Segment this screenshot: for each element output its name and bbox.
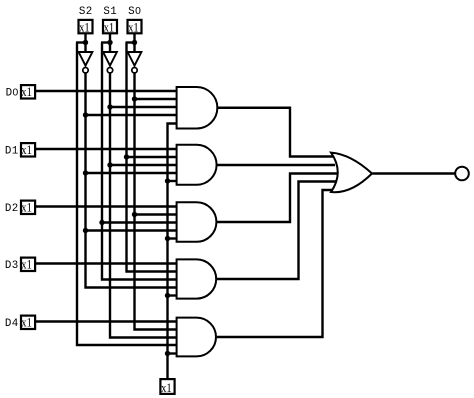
svg-text:S2: S2 (79, 6, 93, 18)
svg-text:S1: S1 (103, 6, 117, 18)
node enable to AND2 (165, 178, 170, 183)
svg-text:x1: x1 (21, 143, 32, 157)
svg-text:D1: D1 (5, 145, 19, 157)
wire S2' branch to AND3 input4 (86, 229, 179, 231)
wire S2 vertical rail (77, 43, 178, 346)
node S2' to AND3 (83, 228, 88, 233)
wire D0 to AND1 input1 (35, 90, 178, 92)
node S1' to AND2 (107, 162, 112, 167)
wire S0 jog to left rail (126, 41, 135, 43)
node S1' to AND1 (107, 104, 112, 109)
svg-text:D4: D4 (5, 318, 19, 330)
wire S1 pin stem (109, 34, 111, 53)
wire AND3 output to OR input3 (217, 174, 340, 223)
wire AND2 output to OR input2 (217, 164, 335, 166)
wire S0' branch to AND3 input2 (135, 213, 179, 215)
wire AND4 output to OR input4 (217, 182, 336, 280)
wire AND1 output to OR input1 (217, 108, 337, 157)
inverter for S1 (103, 52, 117, 66)
wire enable branch to AND2 input5 (168, 180, 179, 182)
AND gate U3 (D2 term) (177, 202, 217, 242)
node enable to AND5 (165, 351, 170, 356)
node S0 junction (132, 40, 137, 45)
svg-text:D3: D3 (5, 260, 19, 272)
svg-text:x1: x1 (21, 316, 32, 330)
wire D2 to AND3 input1 (35, 205, 178, 207)
wire S0 branch to AND2 input2 (127, 156, 179, 158)
node S2' to AND1 (83, 112, 88, 117)
node S2 junction (83, 40, 88, 45)
svg-text:x1: x1 (79, 21, 90, 35)
pin D4 (21, 316, 35, 329)
node S0' to AND1 (132, 96, 137, 101)
AND gate U5 (D4 term) (177, 318, 216, 357)
wire S1 jog to left rail (101, 41, 110, 43)
node S0 to AND2 (124, 154, 129, 159)
pin D0 (21, 85, 35, 98)
inverter for S0 (128, 52, 142, 66)
wire S1 vertical rail (102, 43, 178, 280)
pin S2 (79, 20, 93, 33)
pin S1 (103, 20, 117, 33)
inverter for S2 (79, 52, 93, 66)
node S1 to AND3 (99, 220, 104, 225)
svg-text:x1: x1 (104, 21, 115, 35)
svg-text:D2: D2 (5, 203, 19, 215)
pin enable (160, 379, 174, 394)
node S2' to AND2 (83, 170, 88, 175)
svg-text:x1: x1 (128, 21, 139, 35)
wire D1 to AND2 input1 (35, 148, 178, 150)
pin D3 (21, 258, 35, 271)
wire S0-inverted vertical rail (135, 73, 179, 329)
pin output (455, 167, 469, 181)
node enable to AND3 (165, 236, 170, 241)
wire enable branch to AND5 input5 (168, 352, 179, 354)
svg-text:S0: S0 (128, 6, 141, 18)
svg-text:D0: D0 (6, 87, 19, 99)
OR gate U6 (331, 153, 372, 193)
wire enable branch to AND3 input5 (168, 237, 179, 239)
wire enable vertical rail (168, 124, 179, 379)
wire S0' branch to AND1 input2 (135, 98, 179, 100)
wire S2' branch to AND2 input4 (86, 172, 179, 174)
svg-text:x1: x1 (21, 201, 32, 215)
wire S1' branch to AND1 input3 (110, 106, 178, 108)
wire D4 to AND5 input1 (35, 320, 178, 322)
wire AND5 output to OR input5 (217, 190, 334, 337)
pin S0 (128, 20, 142, 33)
svg-text:x1: x1 (161, 381, 172, 395)
svg-text:x1: x1 (21, 258, 32, 272)
wire enable branch to AND4 input5 (168, 294, 179, 296)
wire S0 vertical rail (127, 43, 179, 272)
AND gate U1 (D0 term) (177, 87, 218, 129)
pin D2 (21, 201, 35, 214)
wire S2' branch to AND1 input4 (86, 114, 179, 116)
AND gate U2 (D1 term) (177, 145, 217, 185)
node enable to AND4 (165, 293, 170, 298)
pin D1 (21, 143, 35, 156)
node S1 junction (107, 40, 112, 45)
AND gate U4 (D3 term) (177, 259, 217, 298)
wire S1 branch to AND3 input3 (102, 221, 178, 223)
wire S2 jog to left rail (76, 41, 86, 43)
wire S2-inverted vertical rail (86, 73, 179, 287)
wire S0 pin stem (133, 34, 135, 53)
node S0' to AND3 (132, 212, 137, 217)
wire D3 to AND4 input1 (35, 262, 178, 264)
wire S1-inverted vertical rail (110, 73, 178, 337)
svg-text:x1: x1 (21, 85, 32, 99)
wire OR output to pin (373, 172, 456, 174)
wire S2 pin stem (84, 34, 86, 53)
wire S1' branch to AND2 input3 (110, 164, 178, 166)
